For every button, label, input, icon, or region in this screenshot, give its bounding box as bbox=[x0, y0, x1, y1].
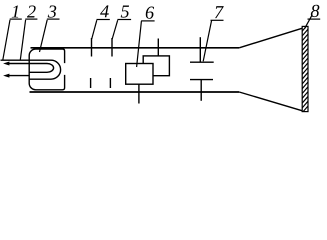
deflection plate pair 6: front plate bbox=[126, 64, 153, 85]
screen 8 (hatched bar) bbox=[299, 15, 312, 116]
leader line 3 bbox=[40, 20, 48, 52]
tube envelope bottom line bbox=[30, 91, 240, 93]
horn flare top line bbox=[239, 28, 302, 48]
grid electrode 4 upper tick bbox=[91, 38, 93, 57]
label 2 bbox=[25, 5, 37, 19]
label 5 bbox=[117, 5, 131, 19]
grid electrode 5 lower dash bbox=[109, 78, 111, 88]
label 3 bbox=[47, 5, 60, 19]
deflection plate pair 6: back plate bbox=[143, 56, 169, 76]
deflection plates 7: upper plate bbox=[190, 61, 214, 63]
leader line 2 bbox=[20, 20, 25, 60]
lower heater lead bbox=[9, 75, 30, 77]
grid electrode 4 lower dash bbox=[90, 78, 92, 88]
label 8 bbox=[308, 5, 321, 19]
deflection plates 7: upper lead bbox=[199, 37, 201, 62]
leader line 4 bbox=[92, 20, 97, 39]
leader line 6 bbox=[137, 21, 142, 67]
deflection plate pair 6: front plate lead bbox=[138, 84, 140, 103]
label 4 bbox=[97, 5, 110, 19]
label 1 bbox=[10, 5, 22, 19]
cathode sleeve 2 (outer U, top line runs out to left edge) bbox=[1, 60, 61, 79]
lower heater lead arrowhead bbox=[3, 74, 9, 78]
deflection plates 7: lower lead bbox=[200, 80, 202, 101]
label 7 bbox=[211, 6, 224, 20]
leader line 5 bbox=[112, 20, 118, 39]
label 6 bbox=[141, 7, 155, 21]
deflection plate pair 6: back plate lead bbox=[157, 39, 159, 57]
leader line 7 bbox=[203, 20, 211, 61]
electrode housing 3 (rounded box with aperture in right wall) bbox=[29, 49, 64, 90]
deflection plates 7: lower plate bbox=[190, 79, 213, 81]
leader line 8 bbox=[305, 15, 312, 28]
filament hairpin (inner U), upper leg doubles as upper heater lead bbox=[9, 64, 54, 73]
horn flare bottom line bbox=[239, 92, 302, 111]
grid electrode 5 upper tick bbox=[111, 38, 113, 57]
leader line 1 bbox=[3, 20, 10, 60]
upper heater lead arrowhead bbox=[3, 62, 9, 66]
tube envelope top line bbox=[31, 47, 240, 49]
